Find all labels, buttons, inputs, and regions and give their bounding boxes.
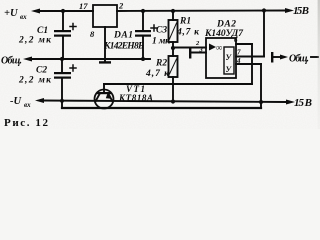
svg-text:4,7 к: 4,7 к [145,69,170,79]
capacitor C1 [18,11,76,59]
terminal Obsh right bar [271,52,273,63]
wire base line to VT1 [104,83,252,85]
resistor R2 [145,48,178,102]
wire double line left closure [61,101,63,108]
wire divider to DA2 pin2 [173,47,206,49]
dash after Obsh [311,56,318,58]
wire DA2 pin4 [236,63,261,65]
svg-text:6: 6 [234,36,238,44]
svg-text:2,2 мк: 2,2 мк [18,36,52,46]
paper background [0,0,320,129]
wire double line right closure [260,102,262,108]
page edge shadow [0,0,1,1]
capacitor C3 [135,11,171,59]
svg-text:DA2: DA2 [216,20,236,30]
terminal +15V arrow [285,8,294,13]
svg-text:17: 17 [79,1,88,11]
svg-text:вх: вх [24,101,31,109]
node C3 bottom junction [141,57,145,61]
wire DA1 pin8 to common rail [104,27,106,62]
transistor VT1 [95,84,154,109]
node C1/C2 common junction [60,57,64,61]
terminal -Uvx arrow [35,98,44,103]
wire common rail [31,58,150,60]
svg-text:∞: ∞ [216,43,222,53]
node R1/R2 divider junction [171,46,175,50]
svg-text:15 В: 15 В [294,97,312,109]
terminal -15V arrow [286,100,295,105]
wire bottom rail [43,101,286,103]
node C2 bottom junction [60,99,64,103]
svg-text:7: 7 [237,49,241,57]
wire DA2 pin6 output [236,43,252,45]
node pin3 common bar [189,48,191,59]
regulator DA1 [79,1,144,52]
svg-text:C1: C1 [37,26,48,36]
wire top rail left [38,10,93,12]
svg-text:Общ.: Общ. [1,56,22,67]
node pin4 bottom junction [259,100,263,104]
svg-text:4,7 к: 4,7 к [176,28,200,38]
node pin7 riser junction [262,8,266,12]
node R1 top junction [171,9,175,13]
capacitor C2 [18,59,76,101]
wire bottom rail double line [62,107,261,109]
wire DA2 pin7 [236,56,264,58]
svg-text:C3: C3 [156,26,167,36]
svg-text:R1: R1 [179,17,191,27]
svg-text:К142ЕН8Б: К142ЕН8Б [103,42,144,52]
svg-text:вх: вх [20,13,27,21]
node DA1 pin8 T-bar on common rail [99,61,111,63]
op-amp DA2 [204,20,244,79]
svg-text:DA1: DA1 [113,31,133,41]
wire pin6 riser down [251,44,253,84]
svg-text:2,2 мк: 2,2 мк [18,76,52,86]
svg-text:+U: +U [4,8,19,19]
wire common bar to DA2 pin3 [191,52,206,54]
svg-text:-U: -U [10,96,22,107]
node C1 top junction [61,9,65,13]
svg-text:R2: R2 [155,59,167,69]
svg-text:15 В: 15 В [293,5,309,17]
terminal +Uvx arrow [31,9,40,14]
svg-text:Общ.: Общ. [289,54,309,65]
svg-text:Рис. 12: Рис. 12 [4,117,49,129]
terminal Obsh left arrow [23,57,32,62]
node C3 top junction [141,9,145,13]
wire pin4 riser to -15 rail [260,64,262,103]
svg-text:2: 2 [118,1,124,11]
node R2 bottom junction [171,99,175,103]
wire pin7 riser to +15 rail [263,11,265,57]
terminal Obsh right arrow [273,56,281,58]
terminal -Uvx label [10,96,31,109]
resistor R1 [169,11,201,48]
terminal +Uvx label [4,8,27,21]
wire top rail right [117,10,286,13]
svg-text:C2: C2 [36,66,47,76]
